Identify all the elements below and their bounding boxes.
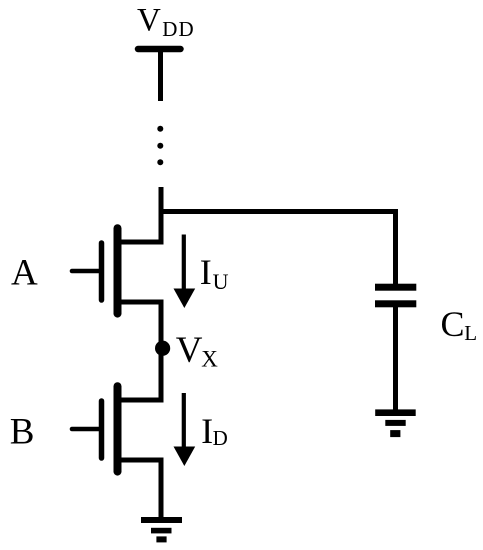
svg-text:X: X: [201, 347, 218, 372]
svg-text:U: U: [213, 269, 229, 294]
svg-text:D: D: [213, 426, 228, 450]
svg-text:A: A: [11, 253, 38, 294]
svg-text:C: C: [441, 304, 465, 344]
svg-text:DD: DD: [162, 17, 194, 41]
svg-text:B: B: [10, 411, 35, 452]
svg-text:I: I: [200, 252, 212, 292]
svg-text:L: L: [464, 321, 477, 345]
svg-text:V: V: [176, 330, 203, 371]
svg-text:V: V: [137, 3, 161, 39]
svg-text:I: I: [201, 411, 213, 451]
